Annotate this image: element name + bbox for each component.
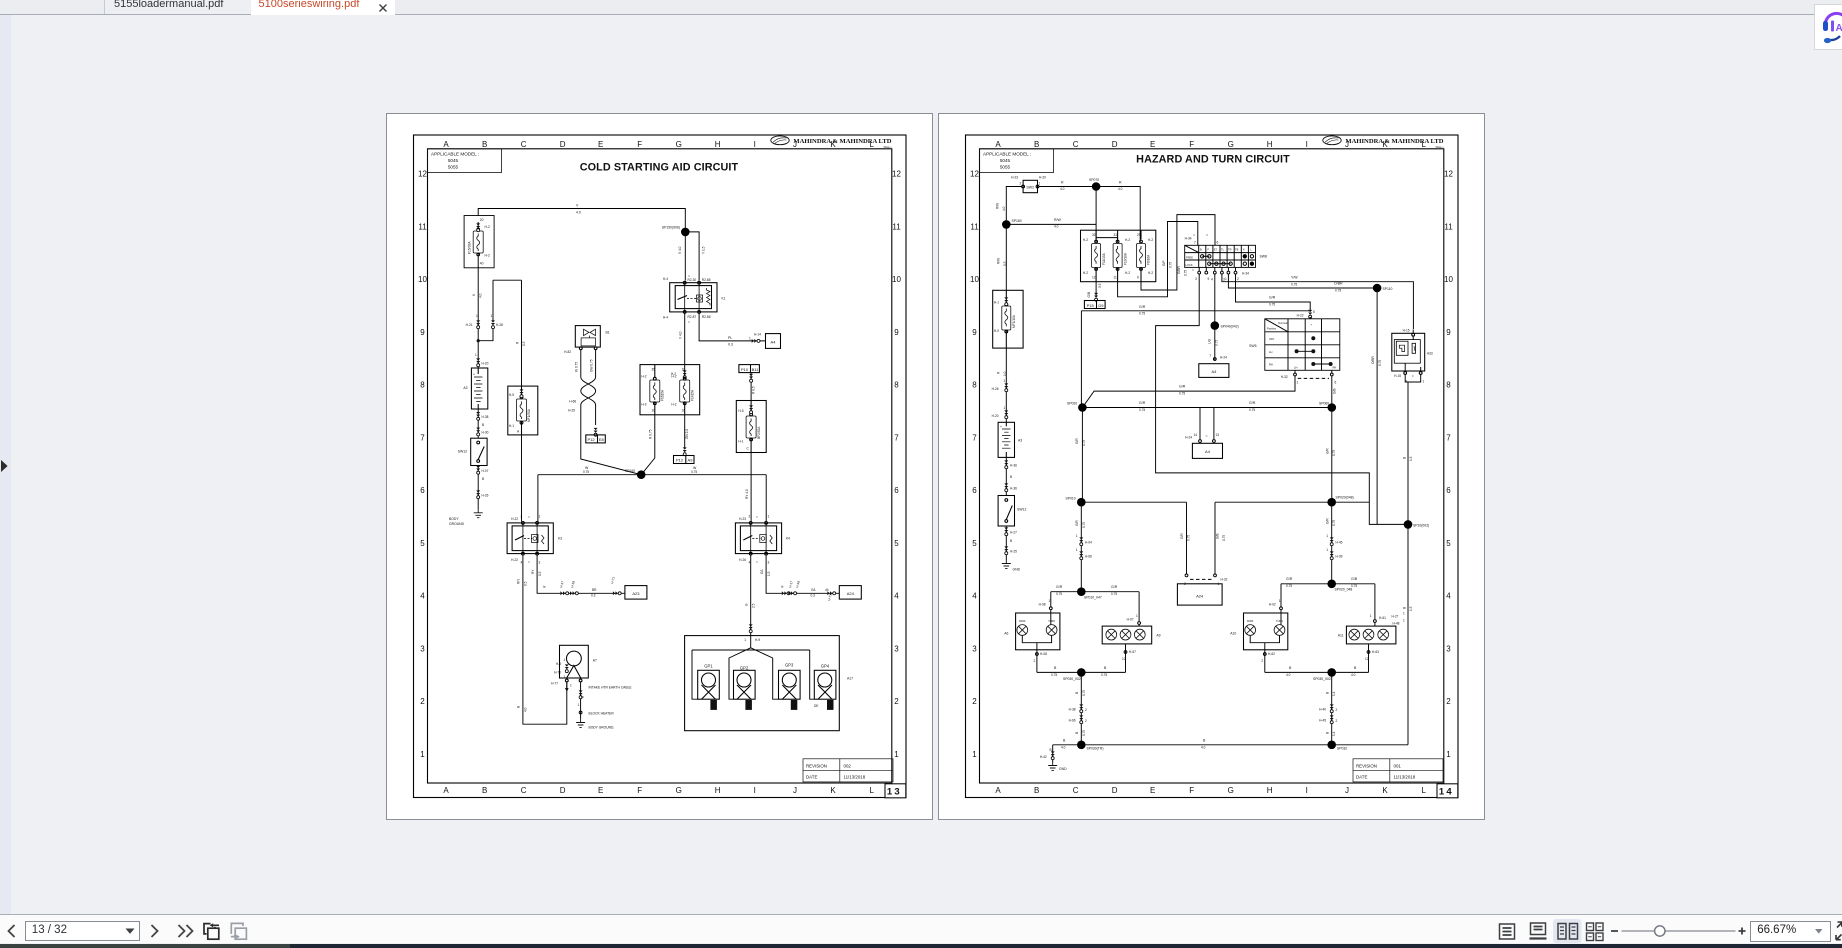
svg-text:11: 11 [418, 222, 427, 231]
glow plug internal bus [692, 636, 814, 700]
relay K1 [670, 281, 717, 313]
svg-text:0.75: 0.75 [1332, 520, 1336, 526]
turn signal switch SW5 table [1265, 319, 1340, 371]
rear combination lamp A9 [1102, 626, 1152, 644]
svg-text:1: 1 [475, 353, 477, 357]
svg-text:2: 2 [1261, 659, 1263, 663]
svg-text:A9: A9 [688, 458, 694, 463]
svg-text:2: 2 [1336, 708, 1338, 712]
svg-text:2: 2 [1237, 277, 1239, 281]
svg-text:H-02: H-02 [1269, 603, 1276, 607]
svg-text:5: 5 [972, 539, 977, 548]
svg-text:P10: P10 [741, 367, 749, 372]
svg-text:E: E [1150, 140, 1155, 149]
front lamp bus left [1051, 591, 1139, 593]
svg-text:A4: A4 [1211, 369, 1217, 374]
wire F13/10A up into SW8 pin 1 [1118, 222, 1198, 297]
svg-text:=: = [1192, 268, 1194, 272]
svg-text:H-66: H-66 [1069, 719, 1076, 723]
svg-text:G/R: G/R [1286, 577, 1293, 581]
svg-text:6: 6 [1335, 381, 1337, 385]
svg-text:H-42: H-42 [1040, 755, 1047, 759]
svg-text:OFF: OFF [1269, 337, 1275, 341]
svg-text:SP010: SP010 [1066, 497, 1076, 501]
wire SW8 pin TL Y/W to right lamp unit [1222, 274, 1414, 329]
svg-text:H-20: H-20 [1039, 176, 1046, 180]
svg-text:H-15: H-15 [1394, 374, 1401, 378]
connectors on A7 feed [565, 664, 569, 672]
svg-text:1: 1 [420, 750, 425, 759]
svg-text:0.75: 0.75 [1169, 262, 1173, 268]
wire P10B11 to fuse BF2/52A [750, 373, 752, 401]
svg-text:APPLICABLE MODEL :: APPLICABLE MODEL : [431, 152, 479, 157]
svg-text:G/B: G/B [1351, 577, 1358, 581]
svg-text:R: R [997, 371, 1001, 374]
svg-text:Y/W: Y/W [1291, 276, 1298, 280]
svg-text:H-1: H-1 [509, 424, 514, 428]
svg-text:H-27: H-27 [1392, 615, 1399, 619]
svg-text:R/W: R/W [1054, 218, 1062, 222]
svg-text:4: 4 [420, 592, 425, 601]
svg-text:H-2: H-2 [1148, 238, 1153, 242]
svg-text:12: 12 [970, 170, 979, 179]
wire SW5 RH pin to SP060 [1331, 376, 1333, 408]
svg-text:GP3: GP3 [785, 663, 794, 668]
svg-text:C: C [1073, 786, 1079, 795]
wire SP020 down to SP010 [1081, 412, 1082, 503]
wire corner to MF1/50A vertical [521, 280, 523, 386]
svg-text:G/B: G/B [1215, 534, 1219, 540]
svg-text:7: 7 [1209, 354, 1211, 358]
svg-text:L: L [869, 786, 874, 795]
svg-text:0.75: 0.75 [1082, 440, 1086, 446]
svg-text:H-26: H-26 [992, 387, 999, 391]
svg-text:11: 11 [970, 222, 979, 231]
svg-text:20: 20 [480, 218, 484, 222]
svg-text:B: B [482, 140, 487, 149]
svg-text:R 0.5: R 0.5 [751, 386, 755, 394]
svg-text:0.75: 0.75 [1082, 522, 1086, 528]
svg-text:H-07: H-07 [1127, 618, 1134, 622]
key switch SW12 [471, 438, 487, 465]
svg-text:A: A [517, 430, 520, 434]
svg-text:H-2: H-2 [641, 375, 646, 379]
svg-text:A23: A23 [632, 591, 640, 596]
svg-text:1.5: 1.5 [1409, 606, 1413, 611]
svg-text:B: B [1034, 140, 1039, 149]
svg-text:H-1: H-1 [738, 440, 743, 444]
svg-text:H-21: H-21 [466, 323, 473, 327]
svg-text:I: I [1306, 140, 1308, 149]
svg-text:LH: LH [1269, 350, 1272, 354]
wire A6 down to SP030_002 bus [1022, 635, 1051, 672]
svg-text:8: 8 [972, 381, 977, 390]
fuse F15/30A [464, 216, 494, 268]
svg-text:H-66: H-66 [569, 400, 576, 404]
svg-text:GW 0.75: GW 0.75 [589, 359, 593, 372]
svg-text:R: R [1119, 181, 1122, 185]
branch wire with connector H-28 [478, 280, 521, 341]
svg-text:=: = [688, 275, 690, 279]
svg-text:H-61: H-61 [1379, 616, 1386, 620]
svg-text:G/R: G/R [1269, 296, 1276, 300]
svg-text:G: G [1228, 786, 1234, 795]
svg-text:A17: A17 [847, 677, 853, 681]
svg-text:GND: GND [1013, 568, 1021, 572]
svg-text:LOCK: LOCK [1186, 263, 1193, 267]
svg-text:1: 1 [476, 314, 478, 318]
svg-text:2: 2 [1034, 659, 1036, 663]
svg-text:H-14: H-14 [754, 333, 761, 337]
svg-text:0.75: 0.75 [691, 470, 697, 474]
wire MF1/50A to relay K3 [521, 435, 523, 522]
svg-text:8: 8 [894, 381, 899, 390]
svg-text:G/R: G/R [1075, 438, 1079, 444]
svg-text:SP110: SP110 [1383, 287, 1393, 291]
svg-text:H-29: H-29 [568, 409, 575, 413]
svg-text:4.0: 4.0 [1002, 206, 1006, 211]
wire K3 to A23 [537, 555, 625, 593]
svg-text:H-24: H-24 [1185, 436, 1192, 440]
svg-text:5045: 5045 [1000, 158, 1011, 163]
svg-text:PARK: PARK [1247, 620, 1254, 623]
splice SP060 [1328, 403, 1337, 412]
svg-text:SP060: SP060 [1319, 402, 1329, 406]
grid column letters top [443, 140, 874, 149]
svg-text:Rise •: Rise • [884, 145, 892, 149]
svg-text:H-48: H-48 [1393, 622, 1400, 626]
bus left end to GND [1052, 745, 1054, 762]
svg-text:H-39: H-39 [1336, 555, 1343, 559]
rear combination lamp A11 [1346, 626, 1396, 644]
svg-text:R: R [1061, 181, 1064, 185]
svg-text:4.0: 4.0 [1054, 225, 1059, 229]
svg-text:0.75: 0.75 [1214, 340, 1218, 346]
svg-text:F11/15A: F11/15A [1102, 252, 1106, 265]
svg-text:13: 13 [887, 787, 902, 798]
ground GND bottom [1048, 762, 1057, 770]
svg-text:H-49: H-49 [795, 580, 801, 588]
svg-text:COLD STARTING AID CIRCUIT: COLD STARTING AID CIRCUIT [580, 162, 739, 174]
bottom ground bus [1053, 744, 1408, 746]
svg-text:H: H [1267, 140, 1273, 149]
svg-text:=: = [756, 516, 758, 520]
svg-text:SW12: SW12 [1017, 508, 1026, 512]
svg-text:PL: PL [728, 336, 732, 340]
svg-text:F: F [637, 786, 642, 795]
svg-text:32: 32 [1092, 233, 1096, 237]
svg-text:0.3: 0.3 [728, 343, 733, 347]
svg-text:H-5: H-5 [738, 409, 743, 413]
svg-text:B: B [1010, 539, 1012, 543]
svg-text:REVISION: REVISION [806, 763, 827, 768]
svg-text:2: 2 [1085, 708, 1087, 712]
svg-text:1.5: 1.5 [1409, 456, 1413, 461]
svg-text:Position: Position [1267, 327, 1277, 331]
svg-text:A4: A4 [771, 339, 777, 344]
svg-text:H-62: H-62 [1268, 652, 1275, 656]
svg-text:=: = [756, 560, 758, 564]
svg-text:H-20: H-20 [482, 362, 489, 366]
svg-text:12: 12 [1122, 657, 1126, 661]
svg-text:A: A [443, 140, 449, 149]
svg-text:H-07: H-07 [482, 469, 489, 473]
svg-text:V: V [576, 204, 579, 208]
svg-text:B: B [1326, 732, 1330, 734]
svg-text:H-26: H-26 [739, 558, 746, 562]
svg-text:Y 1.5: Y 1.5 [702, 246, 706, 254]
bus SP010 segments with A24 drops [1081, 502, 1369, 579]
svg-text:C: C [747, 447, 750, 451]
relay K3 [507, 522, 553, 556]
svg-text:H-1: H-1 [994, 301, 999, 305]
svg-text:A24: A24 [847, 591, 855, 596]
svg-text:BODY GROUND.: BODY GROUND. [589, 726, 615, 730]
svg-text:SP032: SP032 [1337, 746, 1347, 750]
svg-text:10: 10 [970, 275, 979, 284]
svg-text:REVISION: REVISION [1356, 763, 1377, 768]
svg-text:0.75: 0.75 [1187, 535, 1191, 541]
wire A10 down to bus [1250, 635, 1279, 672]
svg-text:RY: RY [531, 569, 535, 574]
svg-text:4: 4 [749, 561, 751, 565]
hazard switch SW8 block [1185, 245, 1256, 267]
svg-text:3: 3 [1446, 644, 1451, 653]
svg-text:16: 16 [682, 368, 686, 372]
svg-text:H-23: H-23 [1011, 176, 1018, 180]
svg-text:4.0: 4.0 [1201, 746, 1206, 750]
svg-text:+: + [1311, 324, 1313, 327]
svg-text:1: 1 [1446, 750, 1451, 759]
svg-text:B: B [482, 786, 487, 795]
svg-text:F1415A: F1415A [690, 389, 694, 401]
svg-text:TL: TL [1221, 248, 1225, 252]
wire SW5 LH pin to SP020 [1082, 376, 1295, 408]
front combination lamp A10 [1244, 613, 1288, 650]
svg-text:H-71: H-71 [827, 593, 833, 601]
svg-text:A24: A24 [1196, 594, 1204, 599]
svg-text:6: 6 [1446, 486, 1451, 495]
svg-text:R/W: R/W [996, 203, 1000, 209]
sidebar expand triangle [0, 458, 10, 474]
svg-text:1: 1 [1326, 548, 1328, 552]
svg-text:A: A [1835, 23, 1842, 34]
sheet number box 13 [885, 784, 906, 798]
wire SP030_002 down to SP030(TR) [1080, 676, 1082, 744]
svg-text:SP020_048: SP020_048 [1335, 588, 1353, 592]
revision table [803, 759, 893, 782]
svg-text:35: 35 [652, 368, 656, 372]
wire SP020(048) down to SP020_048 [1331, 506, 1333, 584]
svg-text:A10: A10 [1230, 632, 1236, 636]
svg-text:L/G: L/G [1208, 338, 1212, 344]
svg-text:A7: A7 [593, 659, 597, 663]
svg-text:B: B [1403, 457, 1407, 459]
applicable model box [980, 149, 1054, 173]
splice SP020_048 [1327, 580, 1336, 589]
svg-text:12: 12 [1365, 657, 1369, 661]
svg-text:0.3: 0.3 [811, 594, 816, 598]
svg-text:A: A [443, 786, 449, 795]
svg-text:BR: BR [592, 588, 597, 592]
svg-text:TURN: TURN [1276, 620, 1283, 623]
fuse bank box F11/15A F13/10A F8/10A [1081, 230, 1156, 282]
box A4 [766, 334, 781, 349]
toolbar controls [0, 915, 1842, 944]
svg-text:A3: A3 [463, 386, 467, 390]
wire SP040 down to A4 [1214, 330, 1216, 361]
svg-text:1: 1 [539, 515, 541, 519]
outer border frame [414, 135, 907, 798]
wire fuse leads [477, 222, 479, 268]
svg-text:G: G [676, 140, 682, 149]
svg-text:0.75: 0.75 [1269, 303, 1275, 307]
svg-text:001: 001 [1394, 763, 1402, 768]
svg-text:0.75: 0.75 [1139, 312, 1145, 316]
svg-text:1: 1 [1423, 380, 1425, 384]
wire K4 to glow plug box [750, 555, 752, 636]
svg-text:9: 9 [1446, 328, 1451, 337]
svg-text:1: 1 [1049, 599, 1051, 603]
wire K3 to intake heater A7 [523, 555, 567, 724]
twisted pair wires from B1 [581, 350, 641, 475]
svg-text:1: 1 [1279, 599, 1281, 603]
svg-text:4.0: 4.0 [524, 707, 528, 712]
svg-text:D: D [560, 786, 566, 795]
svg-text:B: B [1104, 666, 1107, 670]
wire right lamp bus to A11 [1374, 584, 1376, 626]
wire SP160 right to middle fuse [1006, 224, 1117, 242]
svg-text:3: 3 [539, 561, 541, 565]
svg-text:44: 44 [825, 588, 829, 592]
sheet number box 14 [1437, 784, 1458, 798]
connector H-21 [476, 320, 480, 328]
svg-text:V 4.0: V 4.0 [678, 246, 682, 254]
svg-text:SP030_002: SP030_002 [1063, 677, 1081, 681]
wire A11 down to bus [1368, 644, 1370, 673]
svg-text:H-49: H-49 [570, 580, 576, 588]
svg-text:H: H [715, 786, 721, 795]
svg-text:B: B [581, 696, 585, 698]
svg-text:FREE: FREE [1186, 256, 1193, 260]
svg-text:G/P: G/P [1162, 261, 1166, 267]
svg-text:H-45: H-45 [1336, 541, 1343, 545]
wire F8/10A up into SW8 pin 2 [1141, 215, 1215, 290]
svg-text:4.0: 4.0 [576, 211, 581, 215]
svg-text:O/BR: O/BR [1371, 356, 1375, 364]
svg-text:H-17: H-17 [788, 580, 794, 588]
wire below SW12 to body ground [477, 466, 479, 510]
svg-text:11/13/2018: 11/13/2018 [1394, 775, 1416, 780]
svg-text:0.5: 0.5 [1003, 261, 1007, 266]
svg-text:G/R: G/R [1249, 401, 1256, 405]
svg-text:RH: RH [1269, 363, 1273, 367]
svg-text:H-30: H-30 [482, 431, 489, 435]
svg-text:SP010_047: SP010_047 [1084, 596, 1102, 600]
svg-text:A: A [995, 140, 1001, 149]
svg-text:9: 9 [972, 328, 977, 337]
svg-text:1: 1 [1039, 182, 1041, 186]
svg-text:0.75: 0.75 [1332, 450, 1336, 456]
body ground under block heater [576, 719, 585, 727]
wire SW8 pin TR O/BR to SP110 [1228, 274, 1373, 288]
svg-text:5045: 5045 [448, 158, 459, 163]
wires SP150 to relay K1 [685, 232, 699, 281]
left column fuse MF1/15A [993, 290, 1023, 348]
svg-text:O/BR: O/BR [1334, 282, 1343, 286]
svg-text:0.75: 0.75 [1351, 584, 1357, 588]
svg-text:B: B [1289, 666, 1292, 670]
svg-text:H-32: H-32 [1281, 375, 1288, 379]
svg-text:K: K [472, 293, 476, 296]
svg-text:H-22: H-22 [511, 558, 518, 562]
splice SP10(002) [1404, 520, 1413, 529]
svg-text:G: G [676, 786, 682, 795]
svg-text:3: 3 [420, 644, 425, 653]
svg-text:1.4: 1.4 [1332, 731, 1336, 736]
svg-text:4: 4 [972, 592, 977, 601]
svg-text:10: 10 [418, 275, 427, 284]
splice SP070 [1092, 182, 1101, 191]
svg-text:P15: P15 [1087, 303, 1095, 308]
wire battery to SW12 [1005, 457, 1007, 495]
svg-text:1: 1 [1370, 614, 1372, 618]
svg-text:B: B [1054, 666, 1057, 670]
svg-text:H-2: H-2 [485, 225, 490, 229]
svg-text:G/B: G/B [1087, 292, 1091, 298]
svg-text:16: 16 [652, 409, 656, 413]
svg-text:H-04: H-04 [1085, 541, 1092, 545]
wire top feed V 4.0 [478, 209, 685, 228]
svg-text:A3: A3 [1018, 439, 1022, 443]
svg-text:G/B: G/B [1333, 389, 1337, 395]
svg-text:H-25: H-25 [1010, 550, 1017, 554]
splice SP010_047 [1077, 587, 1086, 596]
svg-text:3.5: 3.5 [1098, 283, 1102, 288]
svg-text:29: 29 [1137, 233, 1141, 237]
wire A9 down to bus [1125, 644, 1127, 673]
svg-text:G/R: G/R [1180, 533, 1184, 539]
svg-text:G/R: G/R [1075, 520, 1079, 526]
svg-text:SP030_002: SP030_002 [1313, 677, 1331, 681]
wire left column from F15/30A down [477, 268, 479, 368]
svg-text:RY 4.0: RY 4.0 [745, 489, 749, 499]
svg-text:0.75: 0.75 [1179, 392, 1185, 396]
splice SP030_002 and bus [1037, 671, 1126, 673]
inner border frame [428, 149, 892, 783]
wire F1615A to SP160 [641, 415, 655, 475]
svg-text:H-40: H-40 [1319, 708, 1326, 712]
svg-text:11: 11 [1444, 222, 1453, 231]
svg-text:A6: A6 [1004, 632, 1008, 636]
svg-text:10: 10 [1444, 275, 1453, 284]
svg-text:H-2: H-2 [485, 254, 490, 258]
splice SP020 [1078, 403, 1087, 412]
wire W bus left end down to K3 [537, 475, 539, 522]
fuse MF1/50A [508, 386, 538, 435]
svg-text:GP2: GP2 [740, 666, 749, 671]
svg-text:H-77: H-77 [551, 682, 558, 686]
svg-text:B: B [1075, 732, 1079, 734]
svg-text:H-8: H-8 [556, 662, 561, 666]
svg-text:4.0: 4.0 [1351, 673, 1356, 677]
svg-text:G/L: G/L [811, 588, 816, 592]
svg-text:G: G [1228, 140, 1234, 149]
svg-text:K1: K1 [722, 297, 726, 301]
svg-text:0.3: 0.3 [591, 594, 596, 598]
svg-text:5055: 5055 [1000, 165, 1011, 170]
connectors below battery [477, 409, 479, 438]
